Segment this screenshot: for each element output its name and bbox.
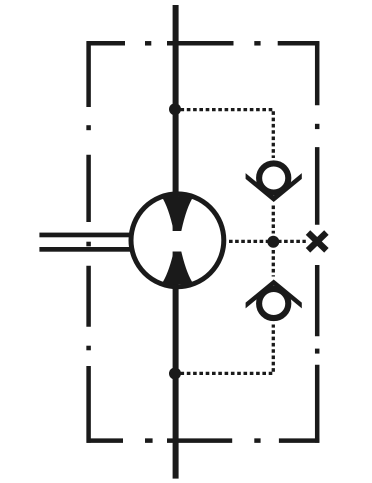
pilot line (dotted) from bottom junction to lower check valve xyxy=(181,325,274,374)
check valve CV1 seat (V) xyxy=(246,173,302,202)
wire: main vertical supply line (upper segment) xyxy=(173,5,179,231)
drive shaft (double line) xyxy=(39,233,133,252)
enclosure boundary bottom (dash-dot) xyxy=(87,438,320,443)
pilot line (dotted) middle junction to lower check valve xyxy=(272,250,275,277)
node: junction dot bottom xyxy=(169,368,181,380)
check valve CV1 ball xyxy=(259,163,288,192)
check valve CV2 seat (inverted V) xyxy=(246,280,302,309)
motor flow triangle (top, pointing to center) xyxy=(162,197,194,232)
motor M1: bidirectional hydraulic motor circle xyxy=(131,194,224,287)
drain line (dotted) from motor case to plugged port xyxy=(229,240,306,243)
node: junction dot top xyxy=(169,103,181,115)
enclosure boundary left (dash-dot) xyxy=(86,41,91,443)
enclosure boundary right (dash-dot) xyxy=(315,41,320,443)
enclosure boundary top (dash-dot) xyxy=(87,41,320,46)
pilot line (dotted) from top junction to upper check valve xyxy=(181,110,274,158)
node: junction dot middle (pilot line cross) xyxy=(267,236,279,248)
check valve CV2 ball xyxy=(259,289,288,318)
pilot line (dotted) upper check valve to middle junction xyxy=(272,206,275,234)
wire: main vertical supply line (lower segment) xyxy=(173,252,179,479)
plugged port X xyxy=(308,233,326,251)
motor flow triangle (bottom, pointing to center) xyxy=(162,252,194,285)
check valve CV1 seat apex fill xyxy=(261,190,287,202)
check valve CV2 seat apex fill xyxy=(261,280,287,292)
